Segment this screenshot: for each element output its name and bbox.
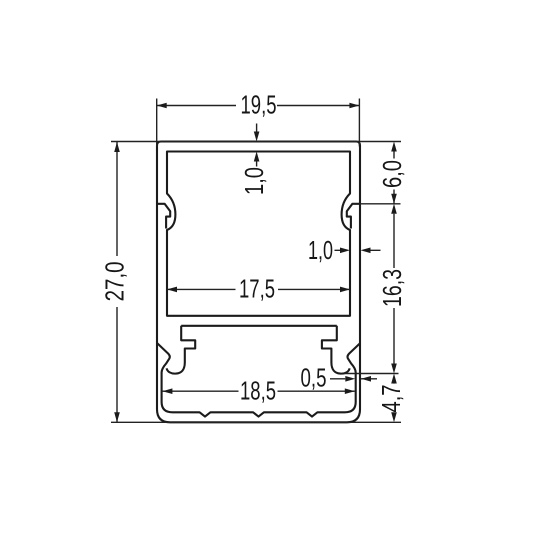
svg-text:1,0: 1,0	[239, 167, 269, 195]
right platform hook with foot	[322, 326, 350, 374]
profile outer contour	[157, 142, 360, 423]
svg-text:1,0: 1,0	[308, 235, 333, 265]
dimension 16,3 line	[393, 214, 395, 364]
arrow left 18,5	[162, 388, 172, 394]
arrow up 4,7	[391, 374, 397, 384]
arrow top 27,0	[114, 142, 120, 152]
platform underside	[181, 325, 337, 327]
dimension 19,5 line	[157, 105, 360, 107]
arrow right 0,5	[345, 376, 355, 382]
svg-text:0,5: 0,5	[301, 363, 327, 393]
arrow left 17,5	[167, 287, 177, 293]
arrow left 19,5	[157, 103, 167, 109]
arrow right 1,0	[340, 248, 350, 254]
dimension 0,5 line	[330, 378, 377, 380]
arrow right 18,5	[345, 388, 355, 394]
svg-text:4,7: 4,7	[376, 385, 406, 413]
svg-text:27,0: 27,0	[100, 261, 130, 301]
extension line left of 19.5	[156, 99, 158, 147]
arrow down 4,7	[391, 412, 397, 422]
arrow up 6,0	[391, 142, 397, 152]
arrow down 1,0 top	[254, 132, 260, 142]
dimension 17,5 line	[167, 288, 350, 290]
left groove hook line	[157, 204, 170, 229]
dimension 4,7 line	[393, 384, 395, 413]
right groove hook line	[347, 204, 360, 229]
arrow up 1,0 top	[254, 152, 260, 162]
arrow bottom 27,0	[114, 412, 120, 422]
side teeth, tray walls and notched inner bottom	[157, 343, 360, 417]
dimension 27,0 line	[116, 142, 118, 422]
extension line right of 19.5	[358, 99, 360, 147]
extension line groove step right	[352, 203, 401, 205]
arrow right 17,5	[340, 287, 350, 293]
svg-text:18,5: 18,5	[240, 376, 276, 406]
arrow left 1,0	[361, 248, 371, 254]
left platform hook with foot	[167, 326, 196, 374]
svg-text:17,5: 17,5	[239, 274, 275, 304]
extension line foot bottom right	[344, 373, 399, 375]
arrow up 16,3	[391, 204, 397, 214]
profile inner cavity contour with side grooves	[167, 152, 350, 316]
arrow right 19,5	[349, 103, 359, 109]
svg-text:6,0: 6,0	[377, 160, 407, 188]
dimension 1,0 right line	[335, 249, 381, 251]
extension line top	[111, 141, 401, 143]
arrow down 16,3	[391, 364, 397, 374]
extension line bottom	[111, 421, 401, 423]
arrow down 6,0	[391, 194, 397, 204]
svg-text:16,3: 16,3	[377, 269, 407, 307]
arrow left 0,5	[361, 376, 371, 382]
dimension 6,0 line	[393, 152, 395, 204]
dimension 18,5 line	[162, 390, 354, 392]
svg-text:19,5: 19,5	[241, 90, 277, 120]
dimension 1,0 top leader	[256, 124, 258, 167]
